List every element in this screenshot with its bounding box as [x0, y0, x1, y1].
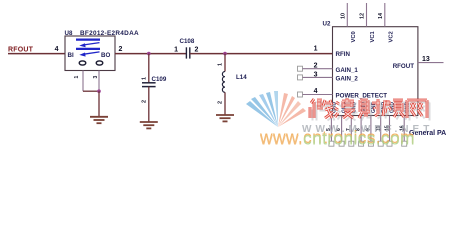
svg-text:1: 1 — [218, 63, 224, 66]
svg-text:BF2012-E2R4DAA: BF2012-E2R4DAA — [80, 30, 139, 37]
U8 bottom pin bubble left — [79, 61, 86, 65]
U2 pin 2 terminal square — [298, 66, 303, 71]
U2 pin 4 terminal square — [298, 92, 303, 97]
svg-text:4: 4 — [314, 88, 318, 95]
svg-text:C109: C109 — [152, 76, 167, 83]
U8 filter element bottom bar — [76, 48, 100, 50]
svg-text:U8: U8 — [65, 30, 73, 37]
svg-text:4: 4 — [55, 46, 59, 53]
U2 pin 9 stub (bottom) — [370, 116, 372, 142]
U2 pin 11 stub (bottom) — [380, 116, 382, 142]
U2 pin 9 terminal square — [368, 141, 373, 146]
U2 pin 13 stub (right) — [418, 62, 444, 64]
svg-text:3: 3 — [314, 72, 318, 79]
ground below U8 — [90, 117, 108, 123]
svg-text:14: 14 — [378, 12, 384, 19]
wire to U8 ground — [98, 91, 100, 116]
svg-text:1: 1 — [314, 46, 318, 53]
amplifier U2 box — [333, 27, 418, 116]
U2 pin 5 stub (bottom) — [330, 116, 332, 142]
svg-text:1: 1 — [142, 77, 148, 80]
svg-text:RFOUT: RFOUT — [393, 63, 415, 70]
svg-text:VC1: VC1 — [370, 30, 376, 42]
svg-text:10: 10 — [341, 13, 347, 19]
U2 pin 11 terminal square — [378, 141, 383, 146]
svg-text:RFIN: RFIN — [336, 51, 351, 58]
filter U8 box — [65, 36, 115, 71]
svg-text:2: 2 — [142, 100, 148, 103]
watermark fan logo — [246, 91, 306, 127]
svg-text:1: 1 — [174, 47, 178, 54]
svg-text:U2: U2 — [323, 21, 331, 28]
U2 pin 15 stub (bottom) — [389, 116, 391, 142]
wire C108 to U2 RFIN — [190, 53, 333, 55]
svg-text:2: 2 — [195, 47, 199, 54]
svg-text:13: 13 — [422, 56, 430, 63]
junction at L14 branch — [223, 52, 227, 56]
U8 bottom pin bubble right — [96, 61, 103, 65]
svg-text:1: 1 — [74, 76, 80, 79]
wire down to C109 — [148, 54, 150, 83]
watermark red Chinese characters (white core layer) — [310, 98, 427, 118]
U2 pin 6 stub (bottom) — [341, 116, 343, 142]
svg-text:L14: L14 — [236, 74, 247, 81]
U2 pin 3 stub — [303, 76, 333, 78]
U2 pin 14 stub (top) — [384, 3, 386, 27]
ground below L14 — [216, 115, 234, 121]
svg-text:www.cntronics.com: www.cntronics.com — [259, 129, 415, 149]
watermark red Chinese characters 微波射频网 (red outline layer) — [310, 98, 427, 118]
junction at U8 bottom pins — [97, 89, 101, 93]
wire RFOUT to U8 pin 4 — [8, 53, 65, 55]
svg-text:2: 2 — [314, 62, 318, 69]
U2 pin 7 terminal square — [349, 141, 354, 146]
svg-text:BI: BI — [68, 52, 74, 59]
U8 filter element top arrow — [79, 43, 99, 48]
svg-text:POWER_DETECT: POWER_DETECT — [336, 93, 388, 100]
watermark red Chinese characters (shadow layer) — [313, 101, 430, 121]
junction at C109 branch — [147, 52, 151, 56]
U2 pin 10 stub (top) — [346, 3, 348, 27]
U2 pin 8 stub (bottom) — [360, 116, 362, 142]
svg-text:BO: BO — [101, 52, 110, 59]
U2 pin 5 terminal square — [329, 141, 334, 146]
U2 pin 16 terminal square — [402, 141, 407, 146]
U2 pin 2 stub — [303, 68, 333, 70]
U8 filter element bottom arrow — [79, 52, 99, 57]
svg-text:C108: C108 — [180, 38, 195, 45]
U2 pin 7 stub (bottom) — [350, 116, 352, 142]
svg-text:VC0: VC0 — [351, 31, 357, 42]
U8 filter element top bar — [76, 38, 100, 40]
U2 pin 16 stub (bottom) — [403, 116, 405, 142]
U2 pin 4 stub — [303, 94, 333, 96]
capacitor C109 plates — [142, 83, 156, 87]
U2 pin 6 terminal square — [339, 141, 344, 146]
wire U8 pin 2 to C108 — [115, 53, 186, 55]
U2 pin 3 terminal square — [298, 75, 303, 80]
capacitor C108 plates — [186, 47, 189, 58]
svg-text:RFOUT: RFOUT — [8, 47, 34, 54]
wire L14 to ground — [224, 92, 226, 115]
ground below C109 — [140, 122, 158, 128]
U8 pin 3 stub (bottom right) — [98, 71, 100, 92]
wire down to L14 — [224, 54, 226, 72]
U2 pin 8 terminal square — [359, 141, 364, 146]
svg-text:2: 2 — [119, 46, 123, 53]
wire C109 to ground — [148, 87, 150, 122]
wire joining U8 bottom pins — [83, 90, 99, 92]
svg-text:GAIN_1: GAIN_1 — [336, 67, 359, 74]
U2 pin 15 terminal square — [387, 141, 392, 146]
inductor L14 coil — [222, 72, 225, 93]
svg-text:3: 3 — [93, 76, 99, 79]
svg-text:2: 2 — [218, 101, 224, 104]
svg-text:VC2: VC2 — [389, 31, 395, 42]
svg-text:GAIN_2: GAIN_2 — [336, 75, 359, 82]
U8 pin 1 stub (bottom left) — [82, 71, 84, 92]
U2 pin 12 stub (top) — [366, 3, 368, 27]
svg-text:12: 12 — [360, 13, 366, 19]
